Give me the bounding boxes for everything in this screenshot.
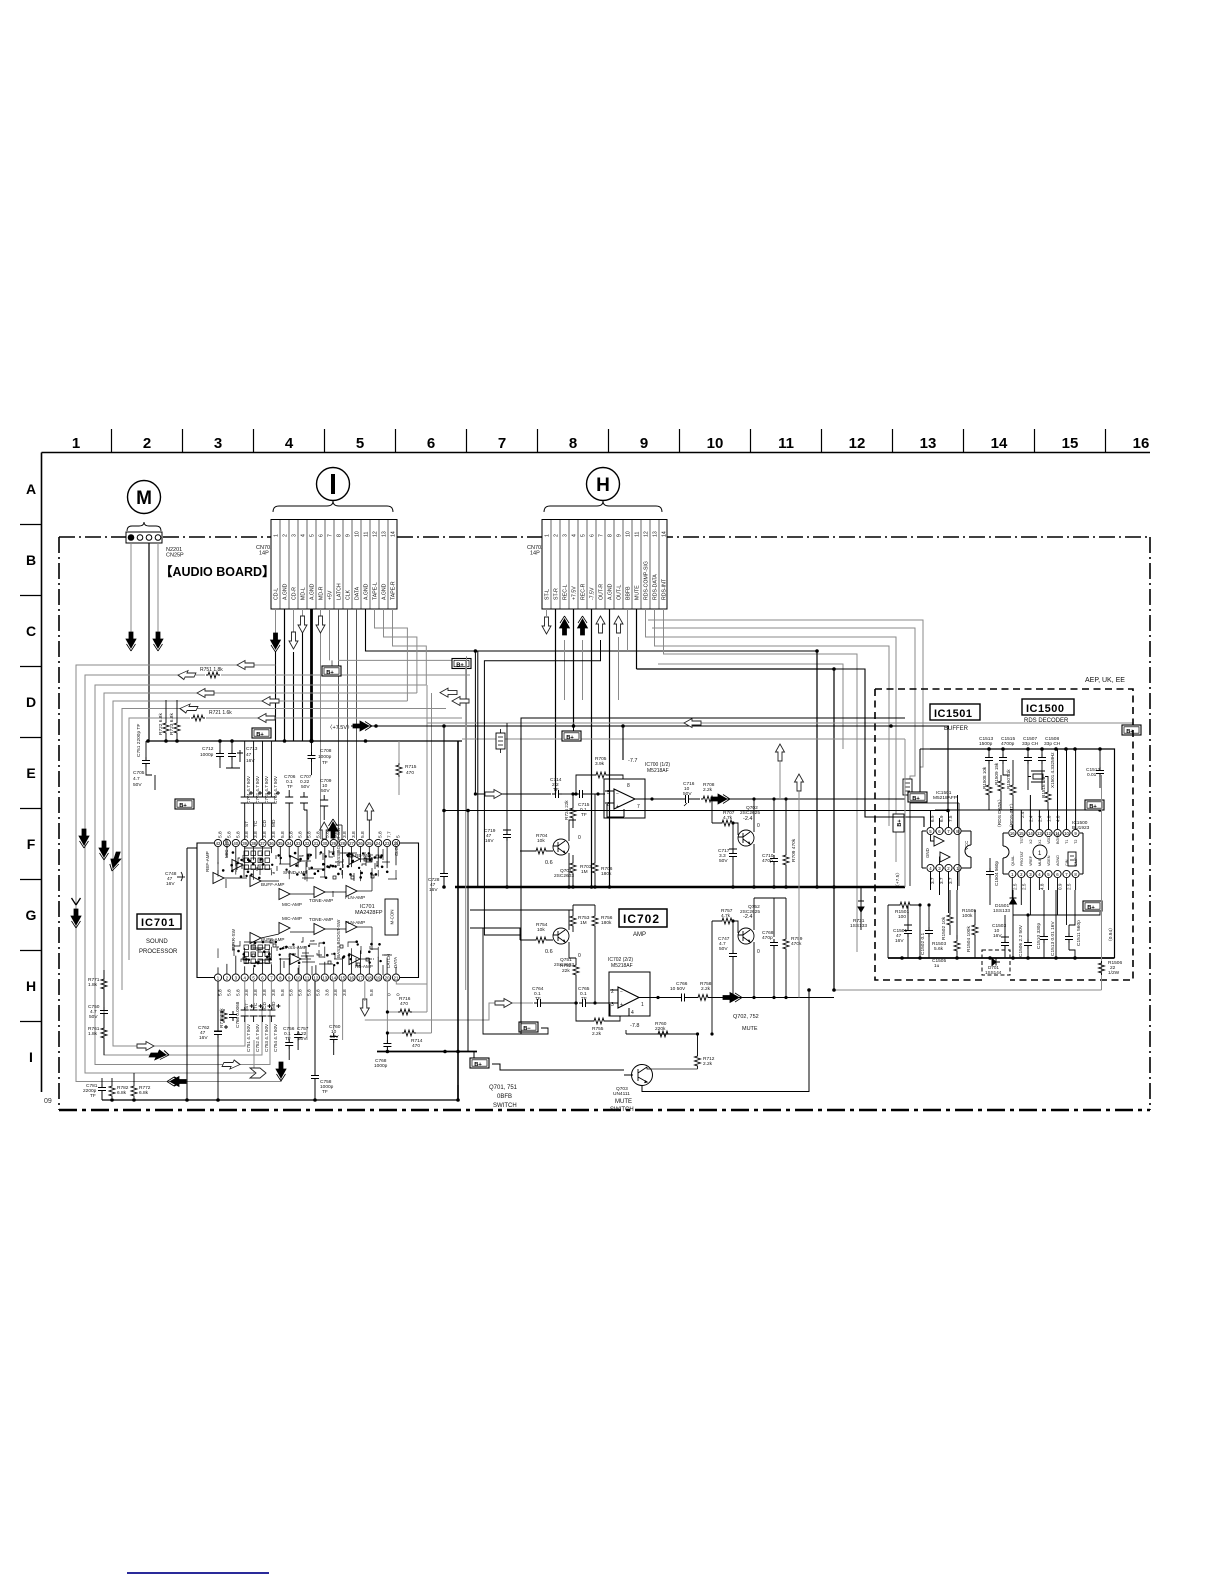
svg-text:B: B: [26, 552, 36, 568]
wire loop L5: [113, 701, 407, 1046]
resistor R1506 22 1/2W: [1099, 960, 1123, 976]
signal ribbon arrow: [276, 1062, 286, 1081]
svg-text:4.8: 4.8: [1039, 883, 1044, 890]
resistor R753 1M: [570, 905, 590, 932]
transistor Q752: [710, 898, 760, 1036]
wire B+ drop to bottom box: [468, 811, 474, 1059]
connector I brace: [273, 501, 393, 512]
connector H body: [542, 520, 667, 610]
svg-text:5.8: 5.8: [226, 831, 232, 838]
svg-text:R1507 1k: R1507 1k: [1006, 769, 1011, 789]
wire I pin11 A.GND: [366, 609, 818, 651]
svg-text:50V: 50V: [89, 1014, 98, 1020]
IC701 internal MIC-AMP: [232, 860, 243, 871]
svg-text:10: 10: [296, 975, 301, 980]
wire I pin9 CLK: [347, 609, 349, 840]
svg-text:1000p: 1000p: [200, 752, 214, 758]
svg-text:3: 3: [214, 435, 222, 452]
svg-text:8: 8: [608, 534, 614, 537]
svg-text:1: 1: [1038, 851, 1042, 857]
svg-text:M-CON: M-CON: [390, 910, 395, 925]
svg-text:FLN-AMP: FLN-AMP: [345, 895, 365, 900]
signal arrow on output: [723, 993, 742, 1003]
svg-text:1: 1: [641, 1002, 644, 1008]
capacitor C751 2200p: [136, 724, 152, 775]
svg-text:AGND: AGND: [1056, 855, 1060, 866]
IC1500 bottom pins: [1009, 870, 1079, 877]
svg-text:ST-L: ST-L: [545, 589, 551, 600]
svg-text:38: 38: [251, 841, 256, 846]
IC1500 bottom pin stubs: [1012, 878, 1075, 925]
final junction dots: [386, 792, 836, 1013]
connector H brace: [544, 501, 662, 512]
svg-text:33p CH: 33p CH: [1044, 741, 1061, 747]
IC701 internal pin stubs: [218, 847, 396, 974]
junction: [889, 724, 893, 728]
svg-text:16V: 16V: [166, 881, 175, 887]
svg-text:C704 4.7 50V: C704 4.7 50V: [273, 775, 278, 804]
IC1500 top pin wires: [1012, 749, 1075, 829]
diode D1501 1SS133: [993, 890, 1017, 958]
resistor R771 1.8k: [88, 970, 107, 1000]
svg-text:13: 13: [920, 435, 937, 452]
capacitor C719 47 16V: [484, 723, 511, 887]
svg-text:3.9k: 3.9k: [595, 761, 605, 767]
wire RDS bundle 2: [652, 628, 915, 803]
B+ box col11 G row: [1083, 901, 1102, 911]
svg-text:39: 39: [242, 841, 247, 846]
chevron arrow: [250, 1068, 266, 1078]
svg-text:4.7: 4.7: [133, 776, 140, 782]
bottom bus junctions: [900, 956, 1077, 960]
svg-text:-7.5V: -7.5V: [590, 587, 596, 600]
svg-text:TF: TF: [285, 1036, 291, 1042]
svg-text:SWITCH: SWITCH: [610, 1107, 634, 1113]
svg-text:1000p: 1000p: [374, 1063, 388, 1069]
svg-text:−: −: [620, 989, 623, 995]
junction: [832, 667, 836, 671]
IC701 internal RB-AMP: [349, 954, 360, 965]
svg-text:16V: 16V: [993, 933, 1002, 939]
svg-text:16: 16: [349, 975, 354, 980]
svg-text:09: 09: [44, 1098, 52, 1105]
svg-text:MUTE: MUTE: [615, 1099, 632, 1105]
wire H pin4 +7.5V: [573, 609, 575, 726]
crystal X1501 4.332MHz: [1028, 752, 1055, 790]
wire mute collector: [652, 1068, 698, 1070]
junction: [374, 724, 378, 728]
left arrows on row D lines right side: [440, 688, 457, 697]
svg-text:16: 16: [1133, 435, 1150, 452]
output net C766 R758: [658, 981, 834, 1002]
svg-text:Q702, 752: Q702, 752: [733, 1014, 759, 1020]
svg-text:R1504 100k: R1504 100k: [966, 926, 972, 952]
svg-text:OUT-R: OUT-R: [599, 584, 605, 600]
wire B+ feed line y810: [444, 810, 948, 812]
IC701 top pin voltage labels: [218, 831, 402, 838]
svg-text:5.8: 5.8: [226, 989, 232, 996]
svg-text:TF: TF: [287, 784, 293, 790]
svg-text:180k: 180k: [601, 871, 612, 877]
IC1501 top pins: [927, 827, 961, 834]
svg-text:1000p: 1000p: [318, 754, 332, 760]
svg-text:22k: 22k: [562, 968, 570, 974]
svg-text:N2201CN25P: N2201CN25P: [166, 547, 184, 559]
svg-text:4: 4: [301, 534, 307, 537]
junctions on y810: [442, 809, 950, 813]
resistor R723: [169, 700, 180, 741]
IC701 internal REF-AMP: [213, 873, 224, 884]
audio board border: [59, 537, 1150, 1110]
resistor R752 22k: [560, 958, 579, 1003]
svg-text:7.7: 7.7: [387, 831, 393, 838]
IC701 internal TONE-AMP: [314, 924, 325, 935]
svg-text:35: 35: [278, 841, 283, 846]
feedback resistor R705 3.9k: [574, 756, 623, 796]
svg-text:11: 11: [364, 532, 370, 537]
transistor Q701: [520, 820, 581, 887]
svg-text:TF: TF: [90, 1093, 96, 1099]
svg-text:6.8k: 6.8k: [139, 1090, 149, 1096]
wire I pin12 TAPE-L: [375, 609, 408, 701]
signal arrow: [542, 617, 551, 634]
svg-text:B+: B+: [326, 670, 334, 676]
svg-text:5: 5: [607, 790, 610, 796]
svg-text:A.GND: A.GND: [310, 583, 316, 600]
capacitor C1507: [1024, 749, 1032, 790]
wire stubs above pins 29-26: [333, 820, 369, 839]
svg-text:〈0.94〉: 〈0.94〉: [1108, 925, 1114, 944]
svg-text:3: 3: [292, 534, 298, 537]
svg-text:−: −: [616, 791, 619, 797]
jumper JW col11: [903, 779, 912, 795]
svg-text:36: 36: [269, 841, 274, 846]
svg-text:A.GND: A.GND: [364, 583, 370, 600]
signal arrow up 2: [795, 774, 804, 791]
svg-text:7: 7: [498, 435, 506, 452]
IC701 top aux labels: [244, 819, 277, 827]
IC701 internal RB-AMP: [349, 854, 360, 865]
svg-text:14: 14: [1028, 831, 1033, 836]
diode D701 arrow: [850, 901, 867, 930]
rail junctions: [146, 724, 625, 743]
connector I pin numbers: [274, 531, 397, 537]
ruler column numbers: [72, 435, 1150, 452]
signal arrow down near pin18: [360, 999, 369, 1016]
svg-text:A.GND: A.GND: [608, 583, 614, 600]
resistor R712 2.2k: [695, 1034, 715, 1069]
resistor R715 470: [396, 741, 417, 795]
svg-text:BUFFER: BUFFER: [944, 726, 969, 732]
D701 dashed component box: [982, 950, 1010, 975]
wire bottom mini bus: [377, 1051, 477, 1053]
svg-text:C1510 330p: C1510 330p: [1036, 923, 1042, 949]
svg-text:10: 10: [355, 531, 361, 537]
svg-text:IC702: IC702: [623, 912, 660, 926]
svg-text:100k: 100k: [962, 913, 973, 919]
signal arrow up: [614, 616, 623, 633]
svg-text:-7.8: -7.8: [630, 1023, 639, 1029]
resistor R706 180k: [592, 794, 613, 887]
wire M pin1: [130, 543, 132, 632]
connector H circle: [587, 468, 620, 501]
capacitors C751-C754 4.7 50V: [241, 1004, 281, 1022]
svg-text:0: 0: [757, 823, 760, 829]
svg-text:6: 6: [427, 435, 435, 452]
connector M brace: [127, 522, 161, 531]
resistor R716 470: [387, 981, 427, 1033]
svg-text:25: 25: [367, 841, 372, 846]
svg-text:B+: B+: [256, 732, 264, 738]
wire RDS bundle 6: [658, 664, 843, 749]
B+ boxed label on rail: [562, 726, 581, 741]
svg-text:C751 2200p TF: C751 2200p TF: [136, 724, 142, 757]
wire left leg of bus: [101, 1092, 103, 1100]
svg-text:4: 4: [572, 534, 578, 537]
svg-text:26: 26: [358, 841, 363, 846]
svg-text:D: D: [26, 694, 36, 710]
svg-text:TST: TST: [1020, 836, 1024, 844]
svg-text:20: 20: [385, 975, 390, 980]
IC1501 assembly box: [910, 803, 959, 886]
svg-text:+7.5V: +7.5V: [572, 586, 578, 600]
IC701 outline: [197, 843, 419, 978]
svg-text:CLOCK: CLOCK: [394, 841, 399, 856]
op-amp IC700 1/2 box: [604, 779, 654, 818]
wire H pin5 REC-R: [582, 640, 584, 700]
IC701 switch matrix upper: [244, 848, 272, 870]
wire from opamp top to B+: [622, 726, 624, 760]
svg-text:+5V: +5V: [328, 590, 334, 600]
svg-text:10k: 10k: [537, 838, 545, 844]
-7.8 label: [626, 1023, 639, 1034]
capacitors C701-C704 4.7 50V above IC701: [241, 741, 280, 839]
capacitor C1505 1u: [932, 958, 946, 969]
signal arrow: [298, 616, 307, 633]
capacitor C1515: [999, 749, 1010, 775]
capacitor pair near C712: [226, 741, 243, 768]
wire +7.5: [351, 726, 948, 810]
svg-text:B−: B−: [523, 1026, 531, 1032]
svg-text:11: 11: [778, 435, 794, 452]
resistor R772 6.8k: [131, 1073, 151, 1098]
svg-text:2.2k: 2.2k: [703, 787, 713, 793]
svg-text:40: 40: [233, 841, 238, 846]
svg-text:5.8: 5.8: [378, 831, 384, 838]
big left arrow: [684, 719, 701, 728]
wire B+ h-line to bus: [1013, 912, 1100, 915]
B+ box AEP right: [948, 800, 1104, 812]
svg-text:RDS DECODER: RDS DECODER: [1024, 718, 1069, 724]
wire pin18 stub: [364, 981, 366, 1001]
svg-text:37: 37: [260, 841, 265, 846]
IC1501 voltage labels: [930, 815, 953, 884]
svg-text:8: 8: [627, 783, 630, 789]
svg-text:〈+7.5V〉: 〈+7.5V〉: [327, 724, 353, 731]
svg-text:10: 10: [1064, 831, 1069, 836]
svg-text:T1: T1: [1065, 840, 1069, 844]
svg-text:H: H: [26, 978, 36, 994]
svg-text:0.6: 0.6: [545, 860, 553, 866]
svg-text:BASS.BOOST-SW: BASS.BOOST-SW: [336, 827, 341, 866]
IC1500 label box: [1022, 699, 1074, 715]
resistor R1516 1M: [1041, 777, 1051, 810]
wire input line y794: [475, 793, 551, 795]
svg-text:470k: 470k: [791, 941, 802, 947]
wire IC701 left leg: [187, 848, 197, 1100]
wire loop L3: [95, 685, 426, 1065]
resistor R1504 100k: [966, 910, 978, 958]
svg-text:BBFB: BBFB: [626, 586, 632, 600]
IC701 bottom aux labels: [244, 1001, 277, 1009]
svg-text:B+: B+: [456, 662, 464, 668]
svg-text:TF: TF: [581, 996, 587, 1002]
transistor Q703 mute switch: [610, 1065, 653, 1114]
svg-text:PROCESSOR: PROCESSOR: [139, 949, 178, 955]
wire I pin2 A.GND: [284, 609, 286, 741]
capacitor C748 47 16V: [165, 871, 185, 887]
IC1501 bottom pin stubs 2: [949, 880, 958, 913]
svg-text:BASS.BOOST-SW: BASS.BOOST-SW: [336, 919, 341, 958]
svg-text:10 50V: 10 50V: [670, 986, 686, 992]
svg-text:7: 7: [599, 534, 605, 537]
svg-text:50V: 50V: [133, 782, 142, 788]
svg-text:7: 7: [328, 534, 334, 537]
resistor R761 1.8k: [88, 1026, 107, 1055]
AEP dashed box: [875, 689, 1133, 980]
IC701 switch matrix lower: [244, 942, 272, 964]
wire loop L6: [122, 709, 446, 991]
wire gray return y990: [834, 989, 1102, 991]
wire I pin7 +5V: [330, 609, 333, 660]
svg-text:R709 470k: R709 470k: [791, 838, 797, 862]
wire arrow drop 2: [798, 791, 800, 998]
svg-text:R723 6.8k: R723 6.8k: [169, 713, 175, 735]
svg-text:4: 4: [285, 435, 294, 452]
svg-text:-2.4: -2.4: [743, 816, 752, 822]
svg-text:1M: 1M: [581, 869, 588, 875]
svg-text:C702 4.7 50V: C702 4.7 50V: [255, 775, 260, 804]
IC1500 BU1923 body: [1003, 833, 1083, 874]
svg-text:RDS-COMP-SIG: RDS-COMP-SIG: [644, 561, 650, 600]
svg-text:A.GND: A.GND: [382, 583, 388, 600]
svg-text:MD-R: MD-R: [319, 586, 325, 600]
svg-text:50V: 50V: [719, 946, 728, 952]
left axis vertical: [41, 453, 43, 1093]
svg-text:UN4111: UN4111: [613, 1091, 630, 1097]
svg-text:IC701: IC701: [141, 917, 175, 929]
capacitor C1511 560p: [1065, 890, 1082, 958]
AEP top bus junctions: [987, 747, 1102, 751]
wire AEP bottom bus: [888, 957, 1115, 959]
wire H pin9 OUT-L: [618, 637, 620, 700]
signal arrow up: [560, 616, 570, 635]
svg-text:【AUDIO BOARD】: 【AUDIO BOARD】: [160, 564, 275, 579]
svg-text:23: 23: [385, 841, 390, 846]
svg-text:VREF: VREF: [1029, 855, 1033, 866]
capacitor C713 47 16V: [246, 746, 258, 764]
svg-text:50V: 50V: [330, 1034, 339, 1040]
svg-text:470: 470: [412, 1043, 420, 1049]
svg-text:2SC2625: 2SC2625: [740, 909, 760, 915]
svg-text:19: 19: [376, 975, 381, 980]
svg-text:11: 11: [635, 532, 641, 537]
svg-text:28: 28: [340, 841, 345, 846]
arrow: [237, 661, 254, 670]
svg-text:2: 2: [611, 989, 614, 995]
svg-text:I: I: [29, 1049, 33, 1065]
svg-text:5.8: 5.8: [280, 989, 286, 996]
open arrow right: [137, 1042, 154, 1051]
svg-text:OUT-L: OUT-L: [617, 585, 623, 600]
double chevron row G: [71, 898, 81, 928]
svg-text:14: 14: [331, 975, 336, 980]
svg-text:10: 10: [626, 531, 632, 537]
svg-text:C766 0.0068: C766 0.0068: [235, 1001, 240, 1028]
wire pin11 drop black: [314, 981, 316, 1100]
svg-text:5: 5: [310, 534, 316, 537]
svg-text:R715: R715: [405, 764, 417, 770]
IC1500 voltage labels: [1012, 815, 1071, 890]
IC702 label box: [619, 909, 667, 927]
svg-text:3.8: 3.8: [342, 831, 348, 838]
svg-text:50V: 50V: [719, 858, 728, 864]
IC1500 internal top pin names: [1020, 833, 1078, 844]
signal arrow down: [126, 632, 136, 651]
capacitor C758 1000p TF: [311, 1072, 334, 1095]
svg-text:13: 13: [322, 975, 327, 980]
skew arrow: [221, 1060, 242, 1069]
svg-text:GND: GND: [925, 848, 930, 858]
resistor R1503 5.6k: [932, 935, 960, 958]
svg-text:7: 7: [637, 804, 640, 810]
resistor R718 39k: [219, 1008, 227, 1028]
capacitor C756 0.1 TF: [283, 1026, 295, 1060]
svg-text:〈+7.5〉: 〈+7.5〉: [895, 870, 901, 889]
svg-text:2.2k: 2.2k: [592, 1031, 602, 1037]
svg-text:32: 32: [305, 841, 310, 846]
svg-text:R718 39k: R718 39k: [219, 1008, 224, 1028]
IC701 internal FLN-AMP: [346, 922, 357, 933]
svg-text:2.2k: 2.2k: [703, 1061, 713, 1067]
capacitor C1508: [1038, 749, 1046, 790]
bold arrow: [353, 721, 372, 731]
svg-text:2.2k: 2.2k: [701, 986, 711, 992]
op-amp IC702 2/2 box: [609, 972, 660, 1016]
(0.94) rotated label: [1102, 775, 1115, 990]
output net: C716 R708: [652, 781, 905, 806]
svg-text:13: 13: [382, 531, 388, 537]
IC1500 top pins: [1009, 829, 1079, 836]
IC701 internal texture 2: [218, 850, 396, 962]
rail junctions: [505, 885, 836, 889]
svg-text:B+: B+: [912, 796, 920, 802]
svg-text:CIN: CIN: [1065, 859, 1069, 866]
svg-text:SOUND: SOUND: [146, 939, 168, 945]
svg-text:〈RDS DATA〉: 〈RDS DATA〉: [997, 797, 1003, 830]
svg-text:E: E: [26, 765, 35, 781]
svg-text:6: 6: [319, 534, 325, 537]
svg-text:5.8: 5.8: [235, 989, 241, 996]
B+ box col8 upper: [322, 660, 341, 676]
svg-text:10k: 10k: [537, 927, 545, 933]
wire rail end drop: [457, 741, 459, 1100]
bus junctions: [110, 1098, 460, 1102]
svg-text:2SC2603: 2SC2603: [554, 873, 574, 879]
IC701 internal MIC-AMP: [279, 923, 290, 934]
capacitor C762 47 16V: [198, 1025, 228, 1100]
B+ box col11 E row: [1122, 725, 1141, 735]
